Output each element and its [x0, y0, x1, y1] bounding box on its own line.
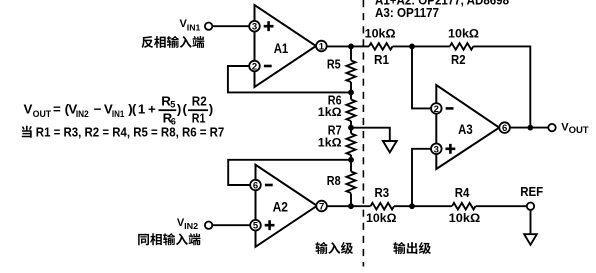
- svg-text:6: 6: [253, 181, 258, 192]
- wire R2 to A3 output net (top right corner): [473, 46, 530, 127]
- node N1 (A1 out / R1 / R5): [348, 44, 354, 50]
- wire R4 to REF terminal: [476, 205, 527, 207]
- svg-text:OUT: OUT: [569, 125, 590, 135]
- svg-text:1kΩ: 1kΩ: [318, 105, 342, 119]
- terminal VIN2: [177, 217, 212, 231]
- wire REF terminal down to ground: [530, 210, 532, 234]
- pin 6 of A2 (-): [250, 180, 272, 192]
- dashed separator between input and output stages: [362, 0, 364, 267]
- svg-text:R1: R1: [374, 53, 389, 67]
- ground (REF): [524, 234, 537, 245]
- svg-text:3: 3: [252, 22, 257, 33]
- label noninverting input (Chinese): [138, 233, 200, 245]
- svg-text:A1: A1: [274, 40, 289, 56]
- pin 2 of A3 (-): [431, 103, 454, 115]
- svg-text:R8: R8: [327, 174, 341, 188]
- wire node N2 down to A3 pin 2: [412, 46, 431, 108]
- svg-text:5: 5: [253, 221, 259, 232]
- op-amp A1: [255, 5, 317, 87]
- pin 1 of A1 (output): [316, 41, 327, 53]
- label input stage (Chinese): [315, 242, 353, 254]
- wire R6/R7 node to ground stub: [351, 128, 390, 141]
- wire R5-R8 chain verticals: [350, 46, 352, 206]
- resistor R6 1k: [318, 94, 356, 122]
- wire R1 to node N2: [393, 45, 413, 47]
- terminal VOUT: [548, 121, 589, 134]
- terminal REF: [520, 185, 543, 210]
- node N3 (A2 out / R3 / R8): [348, 203, 354, 209]
- svg-text:IN1: IN1: [187, 23, 201, 32]
- label output stage (Chinese): [393, 242, 431, 254]
- svg-text:R3: R3: [375, 186, 390, 200]
- op-amp A2: [256, 165, 318, 247]
- svg-text:10kΩ: 10kΩ: [365, 27, 396, 41]
- wire A2 feedback: R7/R8 node left-down to pin 6: [228, 160, 351, 185]
- node R6/R7 ground junction: [348, 125, 354, 131]
- wire node N1 to R1: [351, 45, 369, 47]
- node N2 (R1 / R2 / A3 pin2): [409, 44, 415, 50]
- note A1 A2 A3 part numbers: [375, 0, 509, 20]
- svg-text:2: 2: [252, 62, 257, 73]
- svg-text:10kΩ: 10kΩ: [449, 211, 481, 225]
- condition note (Chinese + resistor equalities): [22, 125, 225, 140]
- wire A1 pin 1 to node N1: [327, 45, 351, 47]
- pin 3 of A3 (+): [431, 144, 455, 156]
- op-amp A3: [436, 85, 499, 169]
- resistor R5: [327, 57, 356, 82]
- wire node N2 to R2: [412, 45, 450, 47]
- wire VIN1 to A1 pin 3: [212, 25, 249, 27]
- wire R3 to node N4: [394, 205, 412, 207]
- node R5/R6 feedback junction: [348, 90, 354, 96]
- wire A1 feedback: pin 2 left-down to R5/R6 node: [228, 66, 351, 92]
- pin 6 of A3 (output): [499, 122, 510, 134]
- svg-text:A3: A3: [458, 121, 473, 137]
- svg-text:R2: R2: [451, 53, 466, 67]
- svg-text:10kΩ: 10kΩ: [366, 211, 397, 225]
- svg-text:R5: R5: [327, 57, 341, 71]
- ground (R6/R7 node): [383, 141, 397, 152]
- resistor R8: [327, 172, 356, 194]
- wire node N4 up to A3 pin 3: [412, 149, 431, 206]
- svg-text:IN2: IN2: [184, 222, 199, 231]
- svg-text:10kΩ: 10kΩ: [448, 27, 479, 41]
- svg-text:A2: A2: [273, 199, 289, 215]
- svg-text:3: 3: [434, 144, 439, 155]
- resistor R4 10k: [449, 186, 481, 225]
- wire node N4 to R4: [412, 205, 452, 207]
- gain equation VOUT: [24, 94, 214, 127]
- svg-text:2: 2: [434, 104, 439, 115]
- svg-text:A3: OP1177: A3: OP1177: [375, 6, 439, 20]
- wire node N3 to R3: [351, 205, 371, 207]
- svg-text:R1 = R3, R2 = R4, R5 = R8, R6: R1 = R3, R2 = R4, R5 = R8, R6 = R7: [36, 125, 225, 140]
- svg-text:OUT: OUT: [33, 109, 52, 119]
- svg-text:5: 5: [170, 100, 175, 110]
- node A3 output / R2 junction: [527, 125, 533, 131]
- resistor R7 1k: [318, 124, 356, 155]
- svg-text:7: 7: [319, 202, 324, 213]
- svg-text:REF: REF: [520, 185, 543, 199]
- svg-text:1kΩ: 1kΩ: [318, 135, 342, 149]
- svg-text:6: 6: [502, 123, 507, 134]
- resistor R3 10k: [366, 186, 397, 225]
- node N4 (R3 / R4 / A3 pin3): [409, 203, 415, 209]
- resistor R1 10k: [365, 27, 396, 67]
- wire A2 pin 7 to node N3: [327, 205, 351, 207]
- resistor R2 10k: [448, 27, 479, 67]
- svg-text:1: 1: [319, 42, 325, 53]
- svg-text:R2: R2: [192, 94, 207, 109]
- pin 7 of A2 (output): [316, 201, 327, 213]
- svg-text:R4: R4: [455, 186, 470, 200]
- svg-text:R1: R1: [192, 111, 206, 126]
- terminal VIN1: [180, 18, 213, 32]
- label inverting input (Chinese): [141, 36, 204, 48]
- pin 5 of A2 (+): [250, 220, 274, 232]
- node R7/R8 feedback junction: [348, 157, 354, 163]
- wire VIN2 to A2 pin 5: [212, 224, 250, 226]
- pin 2 of A1 (-): [249, 61, 271, 73]
- pin 3 of A1 (+): [249, 21, 273, 33]
- wire A3 pin 6 to VOUT terminal: [510, 127, 549, 129]
